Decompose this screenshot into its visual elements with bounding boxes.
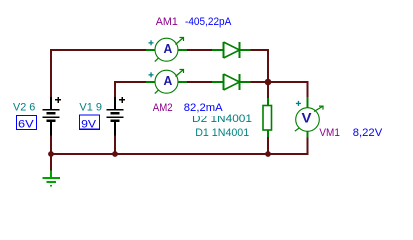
svg-text:VM1: VM1 (319, 127, 340, 139)
svg-text:AM1: AM1 (156, 16, 178, 28)
svg-text:-405,22pA: -405,22pA (185, 16, 232, 28)
svg-text:A: A (163, 73, 172, 88)
svg-text:V: V (302, 109, 313, 125)
svg-text:D1 1N4001: D1 1N4001 (195, 127, 249, 139)
svg-text:8,22V: 8,22V (353, 127, 383, 139)
svg-text:6V: 6V (18, 119, 34, 131)
svg-text:V2 6: V2 6 (13, 102, 35, 114)
svg-text:AM2: AM2 (153, 102, 173, 114)
svg-text:82,2mA: 82,2mA (184, 102, 223, 114)
svg-text:V1 9: V1 9 (79, 102, 102, 114)
svg-text:9V: 9V (81, 119, 97, 131)
svg-text:A: A (163, 41, 172, 56)
